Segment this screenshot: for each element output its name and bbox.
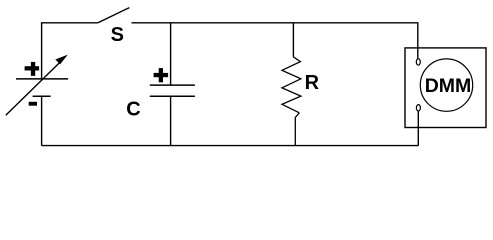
capacitor plus sign [154,68,169,82]
svg-text:R: R [305,72,320,94]
resistor R zigzag [282,57,301,113]
variable source battery top plate [16,78,68,80]
wire top rail right segment with right corner [132,23,418,59]
wire resistor top lead [292,23,294,57]
variable source battery bottom plate [33,95,51,97]
capacitor C bottom plate [150,95,195,97]
DMM bottom terminal [416,105,420,111]
variable source arrow [6,55,68,116]
svg-text:S: S [111,24,124,46]
wire bottom rail [42,145,419,147]
svg-text:DMM: DMM [425,75,472,97]
battery minus sign [29,102,37,106]
switch S blade [98,8,129,23]
wire left rail lower [41,96,43,145]
wire DMM bottom lead [417,111,419,146]
DMM meter face circle [420,59,472,111]
wire capacitor top lead [170,23,172,85]
DMM box [405,48,486,128]
svg-text:C: C [126,98,140,120]
capacitor C top plate [150,84,195,86]
battery plus sign [25,62,39,76]
DMM top terminal [416,59,420,65]
wire capacitor bottom lead [170,96,172,145]
wire resistor bottom lead [295,113,299,146]
wire top rail left segment with left corner [42,23,98,79]
